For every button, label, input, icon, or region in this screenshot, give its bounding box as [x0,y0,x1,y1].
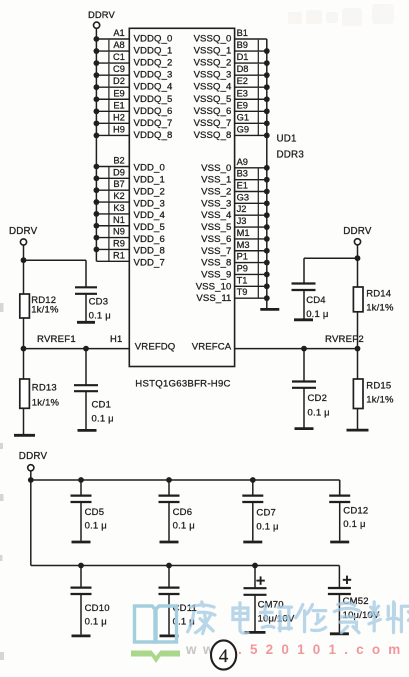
svg-text:E3: E3 [237,88,248,98]
svg-text:VSS_11: VSS_11 [196,293,231,304]
pin B9 / VSSQ_1 wire [194,40,270,57]
svg-text:CD6: CD6 [173,507,193,518]
wire down to row2 [30,480,32,566]
svg-text:J2: J2 [237,204,247,214]
wire DDRV to RD14 [357,258,359,287]
page number 4 (circled) [211,640,236,669]
pin B1 / VSSQ_0 wire [194,28,267,45]
svg-text:RD15: RD15 [366,380,391,391]
svg-text:VSS_4: VSS_4 [201,210,232,221]
svg-text:P1: P1 [237,252,248,262]
pin B2 / VDD_0 wire [94,156,165,174]
svg-text:G3: G3 [237,192,249,202]
svg-text:G1: G1 [237,112,249,122]
svg-text:VREFDQ: VREFDQ [135,341,176,352]
svg-text:J3: J3 [237,216,247,226]
svg-text:HSTQ1G63BFR-H9C: HSTQ1G63BFR-H9C [135,378,230,389]
svg-text:G9: G9 [237,124,249,134]
wire junction to CD3 [24,260,87,287]
svg-text:1k/1%: 1k/1% [31,305,59,316]
svg-text:K3: K3 [113,203,124,213]
svg-text:VSS_9: VSS_9 [201,269,231,280]
pin D2 / VDDQ_4 wire [94,76,174,93]
svg-text:VSS_7: VSS_7 [201,246,231,257]
scan artifacts left edge [0,303,4,660]
svg-text:VDDQ_2: VDDQ_2 [134,58,173,69]
svg-text:VDD_0: VDD_0 [134,163,165,174]
pin K3 / VDD_4 wire [94,203,166,222]
ground (CD7) [243,541,262,544]
pin C1 / VDDQ_2 wire [94,52,173,69]
svg-text:RVREF2: RVREF2 [325,334,364,345]
pin R9 / VDD_8 wire [94,238,165,257]
pin H2 / VDDQ_7 wire [94,112,173,129]
ground (CD12) [330,541,349,544]
ground (RD13) [14,434,35,437]
svg-text:VDD_5: VDD_5 [134,222,165,233]
pin E9 / VSSQ_6 wire [194,100,270,117]
svg-text:VDDQ_8: VDDQ_8 [134,130,173,141]
wire VREFCA to RVREF2 [235,346,358,352]
svg-text:0.1 μ: 0.1 μ [92,414,114,425]
resistor RD13 [20,379,60,408]
IC UD1 HSTQ1G63BFR-H9C body [129,28,234,366]
capacitor CD10 [71,563,110,635]
ground (right bus) [260,308,279,311]
pin VREFDQ [135,341,176,352]
svg-text:VDD_8: VDD_8 [134,246,165,257]
pin B3 / VSS_1 wire [201,168,270,185]
svg-text:T9: T9 [237,287,248,297]
watermark text 家电维修资料网 (stylized) [188,602,409,634]
svg-text:CD3: CD3 [89,296,109,307]
svg-text:E2: E2 [237,76,248,86]
pin E1 / VSS_2 wire [201,180,270,197]
svg-text:E9: E9 [237,100,248,110]
ground (CM52) [330,632,349,635]
pin D8 / VSSQ_3 wire [194,64,270,81]
svg-text:0.1 μ: 0.1 μ [306,309,328,320]
svg-text:VDD_6: VDD_6 [134,234,165,245]
capacitor CD11 [159,563,197,635]
wire RD12 to RVREF1 [23,318,25,349]
power DDRV (bottom) [19,451,48,471]
svg-text:CD1: CD1 [92,400,112,411]
svg-text:R1: R1 [113,250,125,260]
wire cap bus row2 [31,566,340,589]
wire DDRV to left VDDQ bus [95,28,97,39]
svg-text:VSS_10: VSS_10 [196,281,232,292]
pin M1 / VSS_6 wire [201,228,270,245]
capacitor CM52 (polarized) [328,576,380,633]
svg-text:0.1 μ: 0.1 μ [85,521,107,532]
svg-text:VSS_3: VSS_3 [201,198,231,209]
pin E1 / VDDQ_6 wire [94,100,173,117]
svg-text:A9: A9 [237,157,248,167]
svg-text:VDDQ_7: VDDQ_7 [134,118,173,129]
svg-text:E1: E1 [113,100,124,110]
pin H9 / VDDQ_8 wire [94,124,173,141]
svg-text:CD4: CD4 [306,295,326,306]
ground (RD15) [347,429,369,432]
wire RD14 to RVREF2 [357,312,359,349]
svg-text:VSSQ_3: VSSQ_3 [194,70,232,81]
node bus1 left [28,477,34,483]
svg-text:M3: M3 [237,240,250,250]
svg-text:CM70: CM70 [258,600,284,611]
svg-text:B9: B9 [237,40,248,50]
svg-text:1k/1%: 1k/1% [32,397,60,408]
watermark logo: open book pages [135,606,177,642]
capacitor CD12 [329,480,368,541]
svg-text:VSS_5: VSS_5 [201,222,231,233]
svg-text:0.1 μ: 0.1 μ [85,616,107,627]
IC designator UD1 [277,134,297,145]
power DDRV (mid right) [343,226,372,245]
pin N9 / VDD_6 wire [94,226,165,245]
svg-text:UD1: UD1 [277,134,297,145]
svg-text:0.1 μ: 0.1 μ [89,310,111,321]
wire DDRV to cap bus [30,471,32,480]
svg-text:4: 4 [219,646,229,667]
pin VREFCA [192,341,232,352]
svg-text:VSS_6: VSS_6 [201,234,231,245]
ground (CD2) [295,427,314,430]
pin N1 / VDD_5 wire [94,214,165,233]
svg-text:VDD_4: VDD_4 [134,210,166,221]
pin G1 / VSSQ_7 wire [194,112,270,129]
svg-text:0.1 μ: 0.1 μ [173,521,195,532]
capacitor CD4 [292,284,329,320]
power DDRV (mid left) [9,226,38,245]
svg-text:CD5: CD5 [85,507,105,518]
svg-text:H9: H9 [113,124,125,134]
node RVREF1 [21,334,76,351]
wire DDRV down [357,245,359,258]
svg-text:.520101.com: .520101.com [238,642,409,657]
svg-text:B7: B7 [113,179,124,189]
svg-text:DDRV: DDRV [88,9,115,20]
wire DDRV down [23,245,25,260]
pin M3 / VSS_7 wire [201,239,270,256]
svg-text:VSS_2: VSS_2 [201,187,231,198]
svg-text:0.1 μ: 0.1 μ [256,521,278,532]
svg-text:C1: C1 [113,52,125,62]
svg-text:E9: E9 [113,88,124,98]
node RVREF2 [325,334,364,351]
svg-text:VSSQ_8: VSSQ_8 [194,130,232,141]
right VSSQ/VSS ground bus [266,39,268,310]
svg-text:P9: P9 [237,263,248,273]
svg-text:N1: N1 [113,215,125,225]
capacitor CD6 [159,477,195,541]
resistor RD15 [353,379,394,409]
svg-text:R9: R9 [113,238,125,248]
svg-text:E1: E1 [237,181,248,191]
svg-text:B3: B3 [237,169,248,179]
wire RVREF2 to RD15 [357,349,359,379]
svg-text:DDRV: DDRV [343,226,372,237]
pin T9 / VSS_11 wire [196,287,269,304]
svg-text:C9: C9 [113,64,125,74]
svg-text:CD7: CD7 [256,508,276,519]
svg-text:VSS_0: VSS_0 [201,163,231,174]
svg-text:1k/1%: 1k/1% [366,395,394,406]
watermark url www.520101.com [185,642,409,657]
watermark logo: open book base [131,651,180,664]
svg-text:VDDQ_4: VDDQ_4 [134,82,174,93]
capacitor CD7 [242,477,278,541]
resistor RD14 [353,287,394,314]
svg-text:D9: D9 [113,167,125,177]
svg-text:0.1 μ: 0.1 μ [343,519,365,530]
svg-text:RD13: RD13 [32,383,57,394]
node DDRV junction right [355,255,361,261]
svg-text:RVREF1: RVREF1 [37,334,76,345]
svg-text:K2: K2 [113,191,124,201]
svg-text:H2: H2 [113,112,125,122]
svg-text:VSSQ_0: VSSQ_0 [194,34,232,45]
wire DDRV to RD12 [23,260,25,294]
svg-text:VSSQ_4: VSSQ_4 [194,82,232,93]
svg-text:VSS_8: VSS_8 [201,258,231,269]
svg-text:VSS_1: VSS_1 [201,175,231,186]
svg-text:VDD_1: VDD_1 [134,175,165,186]
faint scan marks top right [288,4,394,26]
ground (CD11) [160,635,179,638]
capacitor CD2 [292,349,330,428]
ground (CD6) [160,541,179,544]
svg-text:A1: A1 [113,28,124,38]
svg-text:N9: N9 [113,227,125,237]
ground (CD1) [78,429,97,432]
svg-text:D2: D2 [113,76,125,86]
wire RD13 to ground [23,408,25,434]
capacitor CM70 (polarized) [244,563,296,632]
svg-text:DDR3: DDR3 [277,150,305,161]
svg-text:0.1 μ: 0.1 μ [308,407,330,418]
pin K2 / VDD_3 wire [94,191,165,210]
svg-text:H1: H1 [110,333,122,344]
capacitor CD1 [74,349,114,430]
pin P9 / VSS_9 wire [201,263,270,280]
pin C9 / VDDQ_3 wire [94,64,173,81]
ground (CD4) [294,318,313,321]
svg-text:VREFCA: VREFCA [192,341,232,352]
capacitor CD5 [71,477,107,541]
pin E2 / VSSQ_4 wire [194,76,270,93]
ground (CD10) [72,635,91,638]
pin R1 / VDD_7 wire [96,250,165,269]
svg-text:DDRV: DDRV [9,226,38,237]
pin A1 / VDDQ_0 wire [94,28,173,45]
node DDRV junction [21,257,27,263]
pin E9 / VDDQ_5 wire [94,88,173,105]
svg-text:VDDQ_6: VDDQ_6 [134,106,173,117]
svg-text:B1: B1 [237,28,248,38]
svg-text:D1: D1 [237,52,249,62]
pin G3 / VSS_3 wire [201,192,270,209]
wire junction to CD4 [304,258,358,283]
svg-text:1k/1%: 1k/1% [366,303,394,314]
pin A9 / VSS_0 wire [201,157,270,174]
svg-text:CD12: CD12 [343,505,368,516]
svg-text:CD10: CD10 [85,603,110,614]
pin P1 / VSS_8 wire [201,251,270,268]
svg-text:RD14: RD14 [366,288,391,299]
svg-text:VDD_2: VDD_2 [134,186,165,197]
svg-text:VDDQ_0: VDDQ_0 [134,34,173,45]
power DDRV (top left) [88,9,115,29]
wire RD15 to ground [357,409,359,430]
svg-text:M1: M1 [237,228,250,238]
svg-text:VSSQ_1: VSSQ_1 [194,46,232,57]
svg-text:A8: A8 [113,40,124,50]
svg-text:VSSQ_7: VSSQ_7 [194,118,232,129]
capacitor CD3 [75,287,111,321]
svg-text:VSSQ_2: VSSQ_2 [194,58,232,69]
svg-text:B2: B2 [113,156,124,166]
svg-text:D8: D8 [237,64,249,74]
pin B7 / VDD_2 wire [94,179,165,198]
ground (CD5) [72,541,91,544]
pin J2 / VSS_4 wire [201,204,270,221]
pin D9 / VDD_1 wire [94,167,165,186]
svg-text:VDDQ_1: VDDQ_1 [134,46,173,57]
ground (CD3) [77,321,95,324]
resistor RD12 [20,294,59,318]
svg-text:VDDQ_3: VDDQ_3 [134,70,173,81]
pin D1 / VSSQ_2 wire [194,52,270,69]
wire RVREF1 to pin H1 VREFDQ [24,333,130,351]
pin G9 / VSSQ_8 wire [194,124,270,141]
svg-text:VDDQ_5: VDDQ_5 [134,94,173,105]
svg-text:VSSQ_6: VSSQ_6 [194,106,232,117]
pin J3 / VSS_5 wire [201,216,270,233]
IC part number label [135,378,230,389]
wire cap bus row1 [31,480,340,495]
left VDDQ/VDD bus [95,39,97,261]
svg-text:T1: T1 [237,275,248,285]
svg-text:CD2: CD2 [308,393,328,404]
svg-text:VDD_7: VDD_7 [134,258,165,269]
svg-text:VDD_3: VDD_3 [134,198,165,209]
pin E3 / VSSQ_5 wire [194,88,270,105]
IC label DDR3 [277,150,305,161]
pin A8 / VDDQ_1 wire [94,40,173,57]
ground (CM70) [245,631,266,634]
svg-text:DDRV: DDRV [19,451,48,462]
svg-text:VSSQ_5: VSSQ_5 [194,94,232,105]
wire RVREF1 to RD13 [23,349,25,379]
pin T1 / VSS_10 wire [196,275,270,292]
